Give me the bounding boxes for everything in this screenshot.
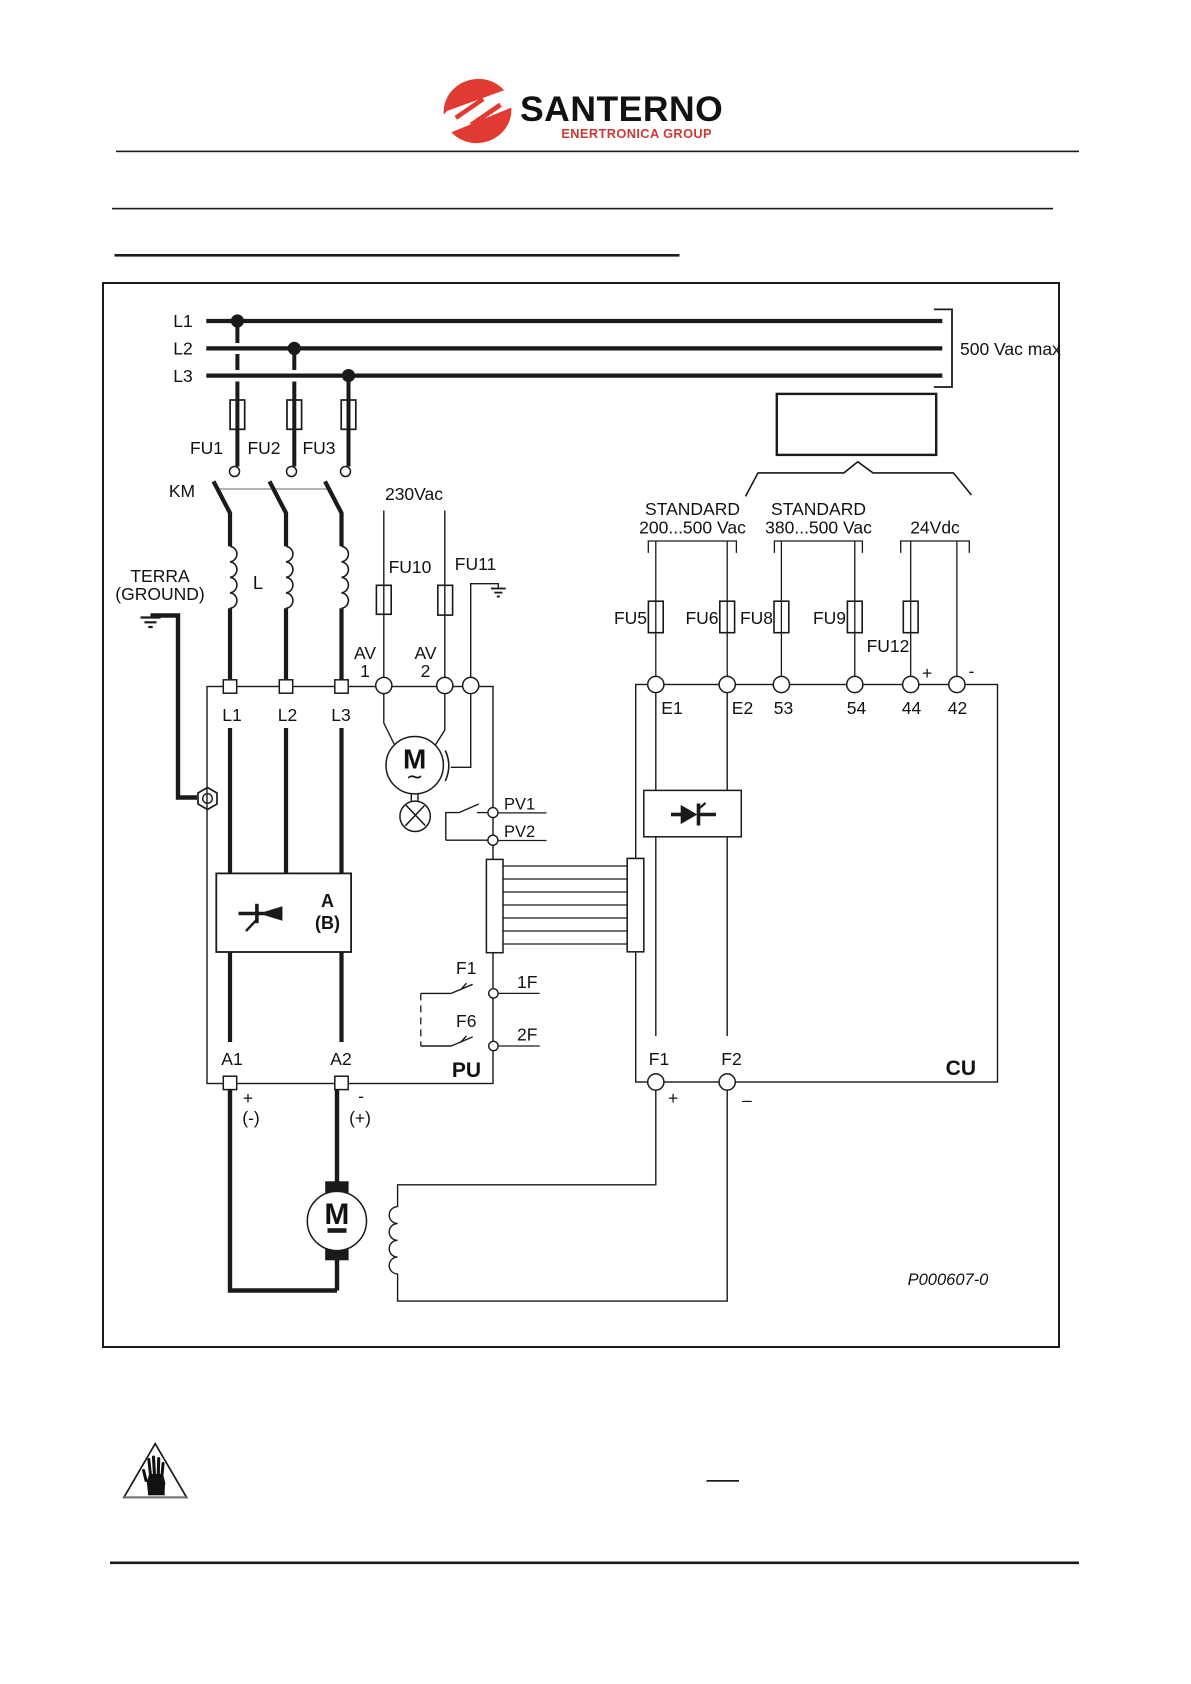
wire motor bottom brush — [335, 1260, 339, 1291]
warning hand symbol — [144, 1457, 166, 1495]
junction node on L2 — [288, 342, 301, 355]
svg-text:STANDARD: STANDARD — [771, 499, 866, 519]
terminal F1 — [648, 1074, 664, 1090]
wire 2F — [498, 1045, 540, 1047]
svg-text:L3: L3 — [331, 705, 350, 725]
pressure switch PV contact — [446, 804, 488, 840]
PU terminal square L1 — [223, 680, 236, 693]
chassis stud (hex nut) on PU — [198, 788, 217, 810]
fuse FU10 body — [376, 585, 391, 614]
contact F6 (PU) — [421, 1036, 473, 1046]
ribbon cable right connector — [627, 859, 644, 952]
svg-text:F1: F1 — [456, 958, 476, 978]
bus line L1 — [206, 319, 942, 323]
svg-text:FU2: FU2 — [247, 438, 280, 458]
wire supply to E2 through FU6 — [726, 541, 728, 677]
terminal 44 — [903, 676, 919, 692]
fuse FU2 — [287, 400, 302, 429]
svg-text:PV2: PV2 — [504, 823, 535, 841]
wire supply to 44 through FU12 — [910, 541, 912, 677]
contactor KM fixed contact 1 — [230, 467, 240, 477]
pointer brace under option box — [746, 462, 972, 497]
svg-text:FU12: FU12 — [867, 636, 910, 656]
svg-text:1: 1 — [360, 661, 370, 681]
svg-text:SANTERNO: SANTERNO — [520, 89, 723, 129]
header rule 1 — [116, 151, 1079, 153]
svg-text:E1: E1 — [661, 698, 682, 718]
svg-text:+: + — [668, 1088, 678, 1108]
terminal E2 — [719, 676, 735, 692]
svg-text:E2: E2 — [732, 698, 753, 718]
ground wire TERRA to PU chassis — [151, 616, 198, 798]
svg-text:(GROUND): (GROUND) — [115, 584, 204, 604]
wire 1F — [498, 992, 540, 994]
terminal 2F — [489, 1041, 498, 1050]
SANTERNO logo mark — [425, 40, 535, 185]
svg-text:L: L — [253, 572, 263, 593]
wire coil2 to terminal L2 — [284, 608, 288, 681]
svg-text:L2: L2 — [173, 339, 192, 359]
svg-text:STANDARD: STANDARD — [645, 499, 740, 519]
PU terminal square L3 — [335, 680, 348, 693]
svg-text:53: 53 — [774, 698, 793, 718]
bus line L2 — [206, 346, 942, 350]
svg-text:TERRA: TERRA — [130, 566, 190, 586]
wire terminal L3 to bridge (gap at label) — [339, 728, 343, 874]
svg-text:PV1: PV1 — [504, 796, 535, 814]
svg-text:+: + — [922, 663, 932, 683]
svg-text:M: M — [324, 1198, 349, 1231]
wire L3 tap to FU3 — [347, 376, 351, 467]
PU terminal square A1 — [223, 1076, 236, 1089]
DC motor armature wires — [230, 1090, 337, 1291]
SCR symbol in bridge — [239, 904, 283, 931]
svg-text:–: – — [742, 1090, 752, 1110]
svg-text:230Vac: 230Vac — [385, 484, 443, 504]
svg-text:54: 54 — [847, 698, 867, 718]
SCR symbol in field rectifier — [671, 803, 716, 826]
svg-text:(-): (-) — [242, 1108, 259, 1128]
terminal AV2 — [437, 677, 453, 693]
wire L2 tap to FU2 (hops over L3) — [292, 348, 296, 466]
svg-text:1F: 1F — [517, 972, 537, 992]
fuse FU12 — [903, 601, 918, 633]
terminal 1F — [489, 989, 498, 998]
svg-text:L2: L2 — [278, 705, 297, 725]
wire earth terminal to fan shroud — [451, 694, 471, 768]
fuse FU3 — [341, 400, 356, 429]
title underline — [115, 254, 680, 257]
wire diode box to F1 — [655, 837, 657, 1036]
svg-text:-: - — [358, 1086, 364, 1106]
bus line L3 — [206, 374, 942, 378]
terminal E1 — [648, 676, 664, 692]
field winding loop — [389, 1090, 727, 1301]
svg-text:KM: KM — [169, 481, 195, 501]
terminal earth (fan) — [463, 677, 479, 693]
terminal AV1 — [376, 677, 392, 693]
svg-text:A2: A2 — [330, 1049, 351, 1069]
wire terminal L2 to bridge (gap at label) — [284, 728, 288, 874]
CU unit box — [636, 685, 998, 1083]
junction node on L3 — [342, 369, 355, 382]
wire earth terminal to ground 2 — [471, 584, 499, 677]
svg-text:24Vdc: 24Vdc — [910, 518, 960, 538]
svg-text:L3: L3 — [173, 366, 192, 386]
svg-text:AV: AV — [354, 643, 376, 663]
terminal 42 — [949, 676, 965, 692]
group bracket 380...500 — [774, 541, 862, 553]
svg-text:44: 44 — [902, 698, 922, 718]
group bracket 200...500 — [648, 541, 736, 553]
thyristor bridge A (B) — [216, 873, 351, 952]
wire coil1 to terminal L1 — [228, 608, 232, 681]
inductor L phase 3 — [342, 546, 349, 608]
svg-text:FU6: FU6 — [685, 608, 718, 628]
wire 230Vac neutral through FU11 to AV2 — [444, 511, 446, 678]
wire A2 to motor plus — [335, 1090, 339, 1182]
wire L1 tap to FU1 (hops over L2,L3) — [235, 321, 239, 467]
wire supply to E1 through FU5 — [655, 541, 657, 677]
PU unit box — [207, 687, 493, 1084]
fuse FU5 — [648, 601, 663, 633]
inductor L phase 2 — [286, 546, 293, 608]
ribbon cable right connector (over CU edge) — [627, 859, 644, 952]
KM blade pole 1 — [214, 481, 231, 546]
dashed mechanical link F1-F6 — [420, 993, 422, 1046]
fan impeller — [400, 801, 430, 831]
fuse FU9 — [847, 601, 862, 633]
ribbon cable wires — [503, 866, 627, 944]
wire AV1 to fan motor — [384, 694, 395, 745]
empty option box — [777, 394, 936, 455]
field rectifier box — [644, 790, 742, 836]
wire AV2 to fan motor — [435, 694, 445, 746]
svg-text:A: A — [321, 891, 334, 911]
header rule 2 — [112, 208, 1053, 210]
svg-text:+: + — [243, 1088, 253, 1108]
svg-text:(B): (B) — [315, 913, 340, 933]
inductor L phase 1 — [230, 546, 237, 608]
svg-text:FU1: FU1 — [190, 438, 223, 458]
wire supply to 54 through FU9 — [854, 541, 856, 677]
wire 42 supply — [956, 541, 958, 677]
ribbon cable left connector — [486, 859, 503, 952]
svg-text:∼: ∼ — [406, 766, 424, 789]
fuse FU6 — [720, 601, 735, 633]
short separator line — [707, 1480, 740, 1482]
contactor KM fixed contact 3 — [341, 467, 351, 477]
svg-text:L1: L1 — [222, 705, 241, 725]
svg-text:380...500 Vac: 380...500 Vac — [765, 518, 872, 538]
KM blade pole 3 — [325, 481, 342, 546]
svg-text:FU11: FU11 — [455, 554, 497, 574]
bottom rule — [110, 1562, 1079, 1565]
wire A1 to motor minus — [230, 1090, 337, 1291]
svg-text:F6: F6 — [456, 1011, 476, 1031]
group bracket 24Vdc — [901, 541, 970, 553]
schematic outer frame — [103, 283, 1059, 1347]
svg-text:F2: F2 — [721, 1049, 741, 1069]
wire bridge to A1 (gap at label) — [228, 952, 232, 1043]
DC motor M — [307, 1181, 366, 1260]
fuse FU1 — [230, 400, 245, 429]
PU terminal square A2 — [335, 1076, 348, 1089]
ground symbol TERRA — [141, 618, 161, 628]
svg-text:P000607-0: P000607-0 — [908, 1271, 990, 1289]
terminal 54 — [847, 676, 863, 692]
svg-text:FU5: FU5 — [614, 608, 647, 628]
fuse FU11 body — [438, 585, 453, 615]
PU terminal square L2 — [279, 680, 292, 693]
svg-text:F1: F1 — [649, 1049, 669, 1069]
svg-text:AV: AV — [414, 643, 436, 663]
terminal 53 — [773, 676, 789, 692]
fuse FU8 — [774, 601, 789, 633]
junction node on L1 — [231, 314, 244, 327]
svg-text:200...500 Vac: 200...500 Vac — [639, 518, 746, 538]
svg-text:2: 2 — [421, 661, 431, 681]
svg-text:(+): (+) — [349, 1108, 371, 1128]
wire bridge to A2 (gap at label) — [339, 952, 343, 1043]
warning triangle — [124, 1444, 187, 1498]
wire terminal L1 to bridge (gap at label) — [228, 728, 232, 874]
svg-text:ENERTRONICA GROUP: ENERTRONICA GROUP — [561, 126, 712, 141]
svg-text:500 Vac max: 500 Vac max — [960, 339, 1061, 359]
wire E2 to diode box — [726, 693, 728, 791]
fan shroud arc — [445, 751, 449, 782]
ground symbol (fan circuit) — [491, 589, 506, 597]
KM mechanical link line — [217, 488, 330, 490]
svg-text:FU9: FU9 — [813, 608, 846, 628]
wire E1 to diode box — [655, 693, 657, 791]
wire diode box to F2 — [726, 837, 728, 1036]
fan shaft — [411, 794, 418, 804]
KM blade pole 2 — [270, 481, 287, 546]
contactor KM fixed contact 2 — [287, 467, 297, 477]
svg-text:CU: CU — [946, 1057, 976, 1080]
svg-text:-: - — [969, 661, 975, 681]
svg-text:42: 42 — [948, 698, 967, 718]
svg-text:FU10: FU10 — [389, 557, 432, 577]
wire coil3 to terminal L3 — [339, 608, 343, 681]
wire supply to 53 through FU8 — [780, 541, 782, 677]
fan motor M~ — [386, 737, 443, 794]
svg-text:PU: PU — [452, 1059, 481, 1082]
svg-text:FU3: FU3 — [302, 438, 335, 458]
terminal PV2 — [488, 835, 498, 845]
svg-text:2F: 2F — [517, 1025, 537, 1045]
terminal F2 — [719, 1074, 735, 1090]
bracket 500 Vac max — [934, 309, 952, 387]
svg-text:A1: A1 — [221, 1049, 242, 1069]
wire 230Vac phase through FU10 to AV1 — [383, 511, 385, 678]
svg-text:FU8: FU8 — [740, 608, 773, 628]
svg-text:L1: L1 — [173, 311, 192, 331]
terminal PV1 — [488, 808, 498, 818]
contact F1 (PU) — [421, 983, 473, 993]
